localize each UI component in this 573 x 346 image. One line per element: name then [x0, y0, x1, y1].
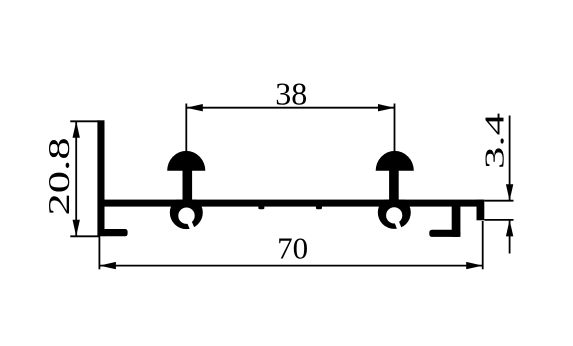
svg-text:70: 70 — [277, 230, 308, 265]
svg-text:38: 38 — [275, 76, 307, 112]
svg-text:20.8: 20.8 — [42, 138, 76, 216]
svg-text:3.4: 3.4 — [479, 112, 509, 169]
